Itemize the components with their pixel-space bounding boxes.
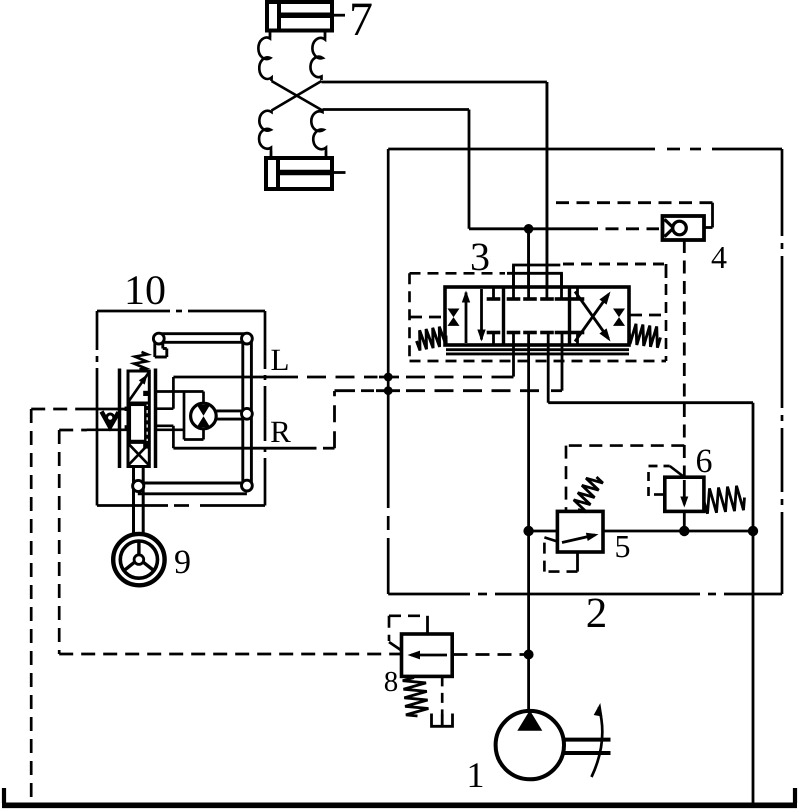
- valve 6 pilot loop: [649, 466, 684, 496]
- valve 5 body: [557, 511, 603, 552]
- svg-text:9: 9: [174, 544, 191, 581]
- steering valve side bars: [120, 369, 156, 469]
- pilot wire T down: [59, 430, 87, 654]
- label 4: [711, 239, 727, 275]
- valve 3 pilot enclosure bottom edge: [410, 360, 667, 363]
- wire port D down: [560, 273, 563, 297]
- label 9: [174, 544, 191, 581]
- cylinder 7 lower body: [266, 158, 332, 189]
- steering unit 10 enclosure: [97, 311, 265, 506]
- node pump-line pilot junction: [524, 650, 534, 660]
- valve 5 spring: [574, 477, 603, 512]
- valve 3 right cell orifice: [613, 309, 625, 326]
- hose to bottom cylinder left port: [259, 111, 271, 152]
- svg-text:2: 2: [586, 590, 608, 637]
- tank line: [2, 788, 797, 805]
- wire P into steering valve: [82, 408, 128, 411]
- node junction on D-line: [524, 224, 534, 234]
- valve 6 down arrow: [680, 480, 688, 508]
- cylinder 7 upper piston rod: [281, 12, 345, 18]
- valve 3 proportional bars: [446, 350, 629, 354]
- valve 3 top cell stubs: [494, 288, 578, 298]
- check valve 4: [663, 216, 705, 240]
- valve 3 body: [445, 287, 629, 345]
- wire L jog: [157, 377, 173, 409]
- node rail-valve6 junction: [679, 526, 689, 536]
- steering valve mid cell window: [130, 405, 148, 441]
- valve 6 body: [665, 477, 704, 511]
- bridge H2 above valve 3: [507, 273, 562, 287]
- valve 3 pilot enclosure top edge: [410, 272, 506, 275]
- steering wheel 9: [113, 534, 164, 585]
- node R junction: [384, 386, 393, 395]
- enclosure 2 bottom chain edge: [388, 593, 782, 596]
- hose to bottom cylinder right port: [311, 111, 326, 152]
- label R: [270, 414, 291, 449]
- steering valve top cell port marker: [143, 391, 148, 396]
- pilot wire to check valve 4: [585, 227, 659, 230]
- cylinder 7 lower piston rod: [280, 170, 346, 176]
- valve 3 cell dividers: [504, 287, 570, 345]
- wire D-line down: [468, 110, 471, 229]
- valve 3 left cell down arrow: [477, 289, 485, 342]
- pump 1 circle: [496, 711, 564, 779]
- wire R-port up: [561, 334, 564, 391]
- wire port B down: [546, 82, 549, 298]
- wire top-cyl right port stub: [324, 31, 327, 39]
- valve 3 right cell crossed arrows: [575, 292, 611, 342]
- label 3: [470, 234, 490, 279]
- pilot branch to valve 5 spring: [566, 446, 684, 510]
- steering valve body: [128, 371, 149, 467]
- enclosure 2 top chain edge: [388, 148, 782, 151]
- wire valve 6 to rail: [683, 511, 686, 531]
- pump 1 shaft: [564, 740, 611, 753]
- steering valve bottom cell port marker: [143, 443, 148, 448]
- valve 3 right spring: [630, 324, 661, 348]
- enclosure 2 right chain edge: [781, 149, 784, 594]
- steering inlet check valve: [102, 412, 119, 428]
- valve 8 spring: [403, 678, 429, 717]
- label 10: [124, 268, 166, 314]
- svg-text:6: 6: [695, 443, 712, 480]
- valve 6 spring: [704, 486, 745, 514]
- svg-text:10: 10: [124, 268, 166, 314]
- label 2: [586, 590, 608, 637]
- valve 3 bottom port bars: [487, 331, 585, 335]
- valve 3 left spring: [417, 327, 447, 351]
- feedback frame top bar: [159, 334, 247, 343]
- pilot wire from steering tank line to valve 8: [59, 653, 400, 656]
- pilot wire valve 8 to pump line: [454, 653, 528, 656]
- node rail-pump junction: [523, 526, 533, 536]
- motor link to feedback frame: [216, 411, 241, 419]
- wire cylinder line D to right: [323, 108, 470, 111]
- metering motor: [191, 403, 217, 429]
- steering shaft: [134, 467, 144, 535]
- valve 3 left cell orifice: [448, 309, 460, 326]
- svg-text:3: 3: [470, 234, 490, 279]
- enclosure 2 left chain edge: [387, 149, 390, 594]
- valve 8 arrow: [408, 651, 448, 660]
- shaft joint: [133, 480, 144, 491]
- valve 8 pilot loop: [389, 616, 428, 651]
- wire main line valve 3 to pump: [527, 334, 530, 711]
- valve 3 left pilot stub: [410, 316, 444, 319]
- steering valve centering spring: [134, 352, 147, 370]
- valve 3 bottom cell stubs: [494, 334, 578, 344]
- svg-text:1: 1: [466, 755, 484, 795]
- wire bottom-cyl left port stub: [270, 151, 273, 158]
- wire crossing diagonal B: [272, 81, 322, 111]
- wire B-line down: [546, 82, 549, 287]
- feedback frame right bar: [243, 339, 252, 486]
- wire cylinder line B to right: [322, 81, 547, 84]
- valve 8 vent symbol: [432, 714, 453, 727]
- valve 3 right pilot stub: [630, 314, 665, 317]
- wire junction down to valve 3 port: [527, 229, 530, 287]
- svg-text:5: 5: [614, 528, 630, 564]
- valve 3 pilot enclosure left edge: [408, 273, 411, 361]
- steering valve top cell arrow: [129, 373, 149, 402]
- wire steering valve to motor lower: [157, 429, 204, 440]
- feedback frame left stub: [155, 339, 167, 357]
- wire pressure rail: [529, 530, 753, 533]
- label 6: [695, 443, 712, 480]
- valve 5 pilot loop: [544, 537, 577, 571]
- label 8: [384, 666, 399, 698]
- wire R line: [173, 391, 562, 449]
- wire port C down: [512, 265, 515, 298]
- wire crossing diagonal A: [272, 81, 323, 111]
- wire R jog: [157, 426, 173, 448]
- steering valve bottom cell cross: [129, 444, 149, 465]
- svg-text:7: 7: [349, 0, 373, 46]
- wire bottom-cyl right port stub: [325, 151, 328, 158]
- pump 1 outlet triangle: [517, 710, 542, 731]
- wire port A down: [527, 233, 530, 298]
- pump 1 variable arrow: [592, 703, 603, 777]
- label 7: [349, 0, 373, 46]
- svg-text:L: L: [271, 342, 290, 377]
- cylinder 7 upper body: [267, 2, 332, 31]
- node rail-return junction: [748, 526, 758, 536]
- wire T into steering valve: [87, 428, 128, 431]
- wire L-port up: [512, 334, 515, 377]
- wire return from valve 3: [548, 334, 753, 805]
- valve 8 drain line: [441, 676, 444, 714]
- valve 3 pilot enclosure right edge: [665, 264, 668, 361]
- label 1: [466, 755, 484, 795]
- bridge H1 above valve 3: [514, 264, 665, 287]
- wire D-line to junction: [469, 227, 585, 230]
- label 5: [614, 528, 630, 564]
- svg-text:4: 4: [711, 239, 727, 275]
- valve 3 top port bars: [487, 297, 585, 301]
- valve 8 body: [402, 634, 453, 676]
- wire top-cyl left port stub: [269, 31, 272, 38]
- wire L line: [173, 376, 513, 379]
- pilot wire check valve 4 down to valve 6: [683, 240, 686, 476]
- valve 3 pilot enclosure top-right dashed: [563, 263, 666, 266]
- hose from top cylinder left port: [258, 37, 271, 81]
- svg-text:8: 8: [384, 666, 399, 698]
- hose from top cylinder right port: [310, 38, 325, 80]
- valve 3 left cell up arrow: [462, 291, 470, 344]
- feedback frame joints: [153, 333, 252, 491]
- svg-text:R: R: [270, 414, 291, 449]
- valve 5 arrow: [562, 533, 599, 543]
- wire steering valve to motor upper: [157, 392, 204, 440]
- label L: [271, 342, 290, 377]
- node L junction: [384, 373, 393, 382]
- pilot wire P to tank: [31, 409, 82, 803]
- feedback frame bottom bar: [138, 483, 247, 494]
- pilot wire loop from check valve 4 outlet: [552, 203, 713, 228]
- steering valve mid cell nubs: [125, 407, 131, 430]
